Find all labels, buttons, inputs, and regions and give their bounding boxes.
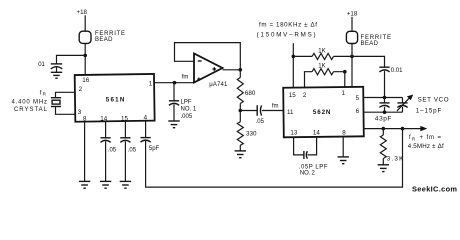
- capacitor 43pF: [375, 98, 392, 123]
- svg-text:.05: .05: [256, 119, 265, 125]
- capacitor .05 coupling: [256, 105, 265, 125]
- svg-text:1: 1: [149, 80, 153, 87]
- svg-text:2: 2: [79, 86, 83, 93]
- op-amp U2 uA741 triangle: [194, 54, 223, 83]
- ground (pin 8): [79, 181, 90, 188]
- node 1K junction: [292, 55, 296, 59]
- svg-text:4.400 MHz: 4.400 MHz: [12, 99, 48, 105]
- wire junction to coupling cap: [240, 110, 257, 112]
- ground (3.3K): [378, 165, 389, 172]
- capacitor 5pF (pin 4): [141, 138, 160, 153]
- capacitor .05 (pin 14): [101, 138, 117, 154]
- wire op-amp output: [223, 69, 241, 71]
- wire pin4 down: [145, 121, 147, 137]
- wire feedback loop: [175, 43, 241, 70]
- wire +18 to ferrite bead right: [351, 17, 353, 32]
- capacitor .05P LPF NO.2: [304, 151, 308, 159]
- ferrite bead FB1: [79, 31, 91, 43]
- wire +18 to ferrite bead left: [84, 15, 86, 31]
- wire bottom bus from 5pF to output node: [146, 129, 403, 188]
- svg-text:13: 13: [290, 129, 297, 136]
- svg-text:(150MV–RMS): (150MV–RMS): [257, 31, 316, 38]
- crystal Y1 4.400 MHz: [51, 98, 61, 107]
- node bead junction: [350, 55, 354, 59]
- wire pin6 line: [364, 111, 403, 113]
- svg-text:3.3K: 3.3K: [387, 156, 404, 163]
- label LPF NO.1 .006: [181, 99, 197, 120]
- svg-text:fm = 180KHz ± Δf: fm = 180KHz ± Δf: [259, 21, 317, 28]
- svg-text:NO. 2: NO. 2: [300, 171, 316, 177]
- wire pin2 to crystal: [56, 92, 76, 97]
- capacitor 0.01 (right bypass): [379, 67, 403, 74]
- ground (330): [235, 151, 246, 158]
- wire junction to 0.01 cap: [352, 56, 385, 67]
- wire bead down to 562N top: [351, 44, 353, 88]
- ground (pin 8 562N): [338, 157, 349, 164]
- svg-text:NO. 1: NO. 1: [181, 107, 197, 113]
- node 680/330/cap junction: [239, 109, 243, 113]
- label fR + fm =: [409, 135, 441, 141]
- svg-text:BEAD: BEAD: [361, 41, 379, 47]
- wire crystal to pin3: [56, 107, 76, 115]
- svg-text:1–15pF: 1–15pF: [416, 107, 442, 114]
- svg-text:562N: 562N: [313, 109, 331, 116]
- svg-text:4.5MHz ± Δf: 4.5MHz ± Δf: [408, 143, 444, 150]
- resistor 680: [237, 70, 256, 111]
- capacitor trimmer SET VCO 1-15pF: [397, 95, 413, 113]
- wire pin13 down: [294, 137, 304, 155]
- svg-text:SET VCO: SET VCO: [418, 97, 449, 104]
- ground (pin 15 cap): [120, 181, 131, 188]
- svg-text:0.01: 0.01: [391, 68, 403, 74]
- wire cap to ground: [173, 104, 175, 121]
- wire cap to ground: [105, 141, 107, 181]
- wire fm input to pin15 of 562N: [292, 43, 294, 87]
- svg-text:01: 01: [38, 62, 45, 68]
- svg-text:+ fm =: + fm =: [420, 135, 442, 141]
- svg-text:.05: .05: [128, 148, 137, 154]
- wire pin5 line: [364, 97, 403, 99]
- wire LPF tap down: [173, 83, 175, 101]
- wire cap to pin11 of 562N: [262, 110, 284, 112]
- wire bead to pin16 of 561N: [84, 43, 86, 74]
- svg-text:16: 16: [82, 77, 89, 84]
- node bus junction: [401, 127, 405, 131]
- svg-text:2: 2: [303, 92, 307, 99]
- node 43pF top: [383, 96, 387, 100]
- label .05P LPF NO. 2: [299, 164, 328, 176]
- op-amp plus input mark: [197, 78, 200, 81]
- svg-text:8: 8: [342, 129, 346, 136]
- ferrite bead FB2: [346, 31, 357, 43]
- svg-text:.05P LPF: .05P LPF: [299, 164, 328, 170]
- svg-text:4: 4: [144, 115, 148, 122]
- ground (left .01 cap): [51, 72, 62, 78]
- svg-text:330: 330: [246, 131, 257, 138]
- wire pin8 down: [84, 121, 86, 181]
- svg-text:.005: .005: [181, 114, 193, 120]
- node 43pF bottom: [383, 110, 387, 114]
- wire junction to .01 cap: [57, 55, 86, 64]
- svg-text:.05: .05: [108, 148, 117, 154]
- IC U3 box 562N: [283, 87, 364, 137]
- output arrowhead: [420, 126, 427, 131]
- wire pin8 of 562N down: [342, 137, 344, 157]
- op-amp minus input mark: [198, 60, 202, 62]
- node junction bead/.01: [83, 54, 87, 58]
- svg-text:SeekIC.com: SeekIC.com: [412, 185, 457, 194]
- op-amp U1 box 561N: [75, 74, 155, 122]
- svg-text:6: 6: [356, 108, 360, 115]
- svg-text:fm: fm: [182, 74, 189, 80]
- wire 0.01 cap down to pin5 line: [384, 71, 386, 98]
- svg-text:1: 1: [342, 90, 346, 97]
- label 4.400 MHz CRYSTAL: [12, 99, 48, 113]
- node fm junction: [173, 81, 177, 85]
- wire pin14 down: [105, 121, 107, 138]
- resistor 1K lower: [305, 64, 345, 87]
- svg-text:15: 15: [289, 92, 296, 99]
- svg-text:+18: +18: [77, 9, 88, 16]
- wire pin15 down: [124, 121, 126, 138]
- svg-text:1K: 1K: [318, 64, 325, 70]
- wire output line with arrow: [364, 128, 422, 130]
- node 3.3K junction: [382, 127, 386, 131]
- svg-text:14: 14: [100, 115, 107, 122]
- svg-text:BEAD: BEAD: [95, 37, 113, 43]
- svg-text:561N: 561N: [106, 96, 125, 103]
- capacitor .01 (left bypass): [38, 62, 62, 72]
- svg-text:43pF: 43pF: [375, 115, 392, 122]
- svg-text:1K: 1K: [318, 48, 325, 54]
- resistor 3.3K: [380, 129, 404, 165]
- wire pin14 down: [308, 137, 317, 155]
- svg-text:15: 15: [121, 115, 128, 122]
- svg-text:fm: fm: [272, 104, 279, 110]
- ground (pin 14 cap): [100, 181, 111, 188]
- svg-text:14: 14: [313, 129, 320, 136]
- capacitor .006 LPF NO.1: [169, 101, 179, 106]
- capacitor .05 (pin 15): [120, 138, 136, 154]
- label fR: [40, 90, 47, 96]
- svg-text:11: 11: [287, 109, 294, 116]
- resistor 330: [237, 111, 257, 151]
- svg-text:CRYSTAL: CRYSTAL: [14, 107, 48, 113]
- svg-text:5pF: 5pF: [149, 146, 160, 152]
- svg-text:3: 3: [78, 109, 82, 116]
- node pin1 junction: [343, 70, 347, 74]
- svg-text:μA741: μA741: [209, 82, 228, 88]
- svg-text:5: 5: [356, 95, 360, 102]
- wire cap to ground: [124, 141, 126, 181]
- node output junction: [239, 68, 243, 72]
- op-amp plus mark near apex: [213, 67, 217, 71]
- svg-text:+18: +18: [347, 10, 358, 17]
- svg-text:LPF: LPF: [181, 99, 192, 105]
- wire pin1 of 561N to op-amp input: [154, 82, 194, 84]
- ground (LPF NO.1): [168, 121, 179, 128]
- resistor 1K upper: [293, 48, 352, 59]
- svg-text:680: 680: [245, 90, 256, 97]
